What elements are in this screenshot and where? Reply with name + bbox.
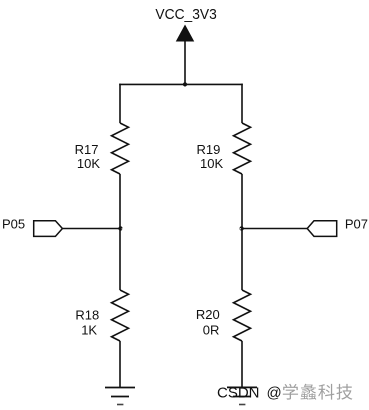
wire: left branch upper: [119, 84, 121, 123]
svg-text:10K: 10K: [77, 156, 100, 171]
svg-text:10K: 10K: [200, 156, 223, 171]
wire: right branch to P07: [242, 228, 307, 230]
svg-text:R17: R17: [75, 142, 99, 157]
junction node P05: [118, 226, 122, 230]
svg-text:R20: R20: [196, 307, 220, 322]
wire: right branch middle: [241, 174, 243, 290]
wire: left branch lower: [119, 341, 121, 388]
svg-text:P05: P05: [2, 217, 25, 232]
svg-text:1K: 1K: [81, 322, 97, 337]
resistor R18: [112, 290, 129, 341]
wire: right branch lower: [241, 341, 243, 387]
junction node P07: [239, 226, 243, 230]
wire: P05 to left branch: [62, 228, 120, 230]
svg-text:0R: 0R: [203, 322, 220, 337]
wire: left branch middle: [119, 174, 121, 290]
port P07: [307, 221, 337, 237]
resistor R19: [234, 123, 251, 174]
ground (right): [227, 387, 257, 404]
resistor R20: [234, 290, 251, 341]
wire: right branch upper: [241, 84, 243, 123]
svg-text:P07: P07: [345, 217, 368, 232]
port P05: [34, 221, 63, 237]
resistor R17: [112, 123, 129, 174]
power symbol VCC_3V3 (arrow): [177, 26, 194, 85]
ground (left): [105, 388, 135, 405]
wire: top rail: [119, 83, 243, 85]
watermark CSDN: [217, 384, 352, 402]
svg-text:VCC_3V3: VCC_3V3: [155, 7, 216, 23]
svg-text:R18: R18: [75, 307, 99, 322]
svg-text:@: @: [267, 384, 282, 401]
svg-text:R19: R19: [197, 142, 221, 157]
junction at VCC stem: [183, 82, 187, 86]
